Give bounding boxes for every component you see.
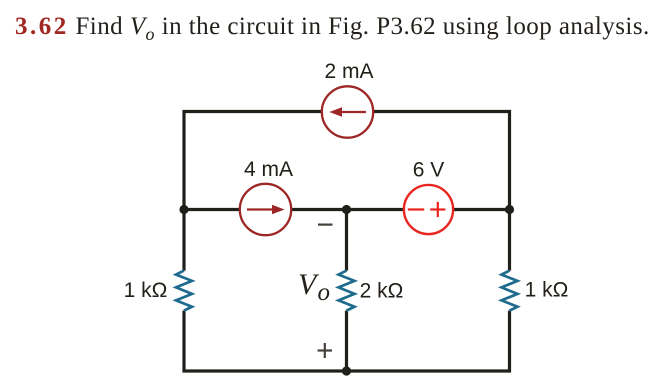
wire middle vertical top	[345, 210, 348, 271]
wire middle vertical bottom	[345, 311, 348, 371]
svg-text:2 mA: 2 mA	[324, 60, 373, 83]
svg-text:Vo: Vo	[298, 268, 330, 306]
resistor R1 1 kOhm left	[176, 271, 192, 311]
resistor R2 2 kOhm middle	[339, 271, 355, 311]
current source I1 2 mA	[322, 86, 373, 137]
voltage source V1 6 V	[404, 185, 453, 234]
node B center middle junction	[342, 205, 351, 214]
wire top-left to left vertical top	[184, 112, 322, 271]
polarity plus for Vo	[318, 343, 333, 358]
svg-text:6 V: 6 V	[413, 158, 445, 181]
wire left vertical bottom and bottom-left run	[184, 311, 347, 371]
svg-text:2 kΩ: 2 kΩ	[360, 280, 404, 303]
node A left middle junction	[179, 205, 188, 214]
svg-text:4 mA: 4 mA	[244, 158, 293, 181]
wire middle right segment	[453, 208, 510, 211]
node D bottom center junction	[342, 366, 351, 375]
wire top-right to right vertical top	[373, 112, 509, 271]
polarity minus for Vo	[318, 224, 333, 226]
wire right vertical bottom and bottom-right run	[347, 311, 510, 371]
wire middle center segment	[291, 208, 404, 211]
wire middle left segment	[184, 208, 240, 211]
node C right middle junction	[505, 205, 514, 214]
current source I2 4 mA	[240, 184, 291, 235]
svg-text:1 kΩ: 1 kΩ	[124, 279, 168, 302]
resistor R3 1 kOhm right	[502, 271, 518, 311]
title	[15, 13, 650, 45]
svg-text:1 kΩ: 1 kΩ	[525, 279, 569, 302]
